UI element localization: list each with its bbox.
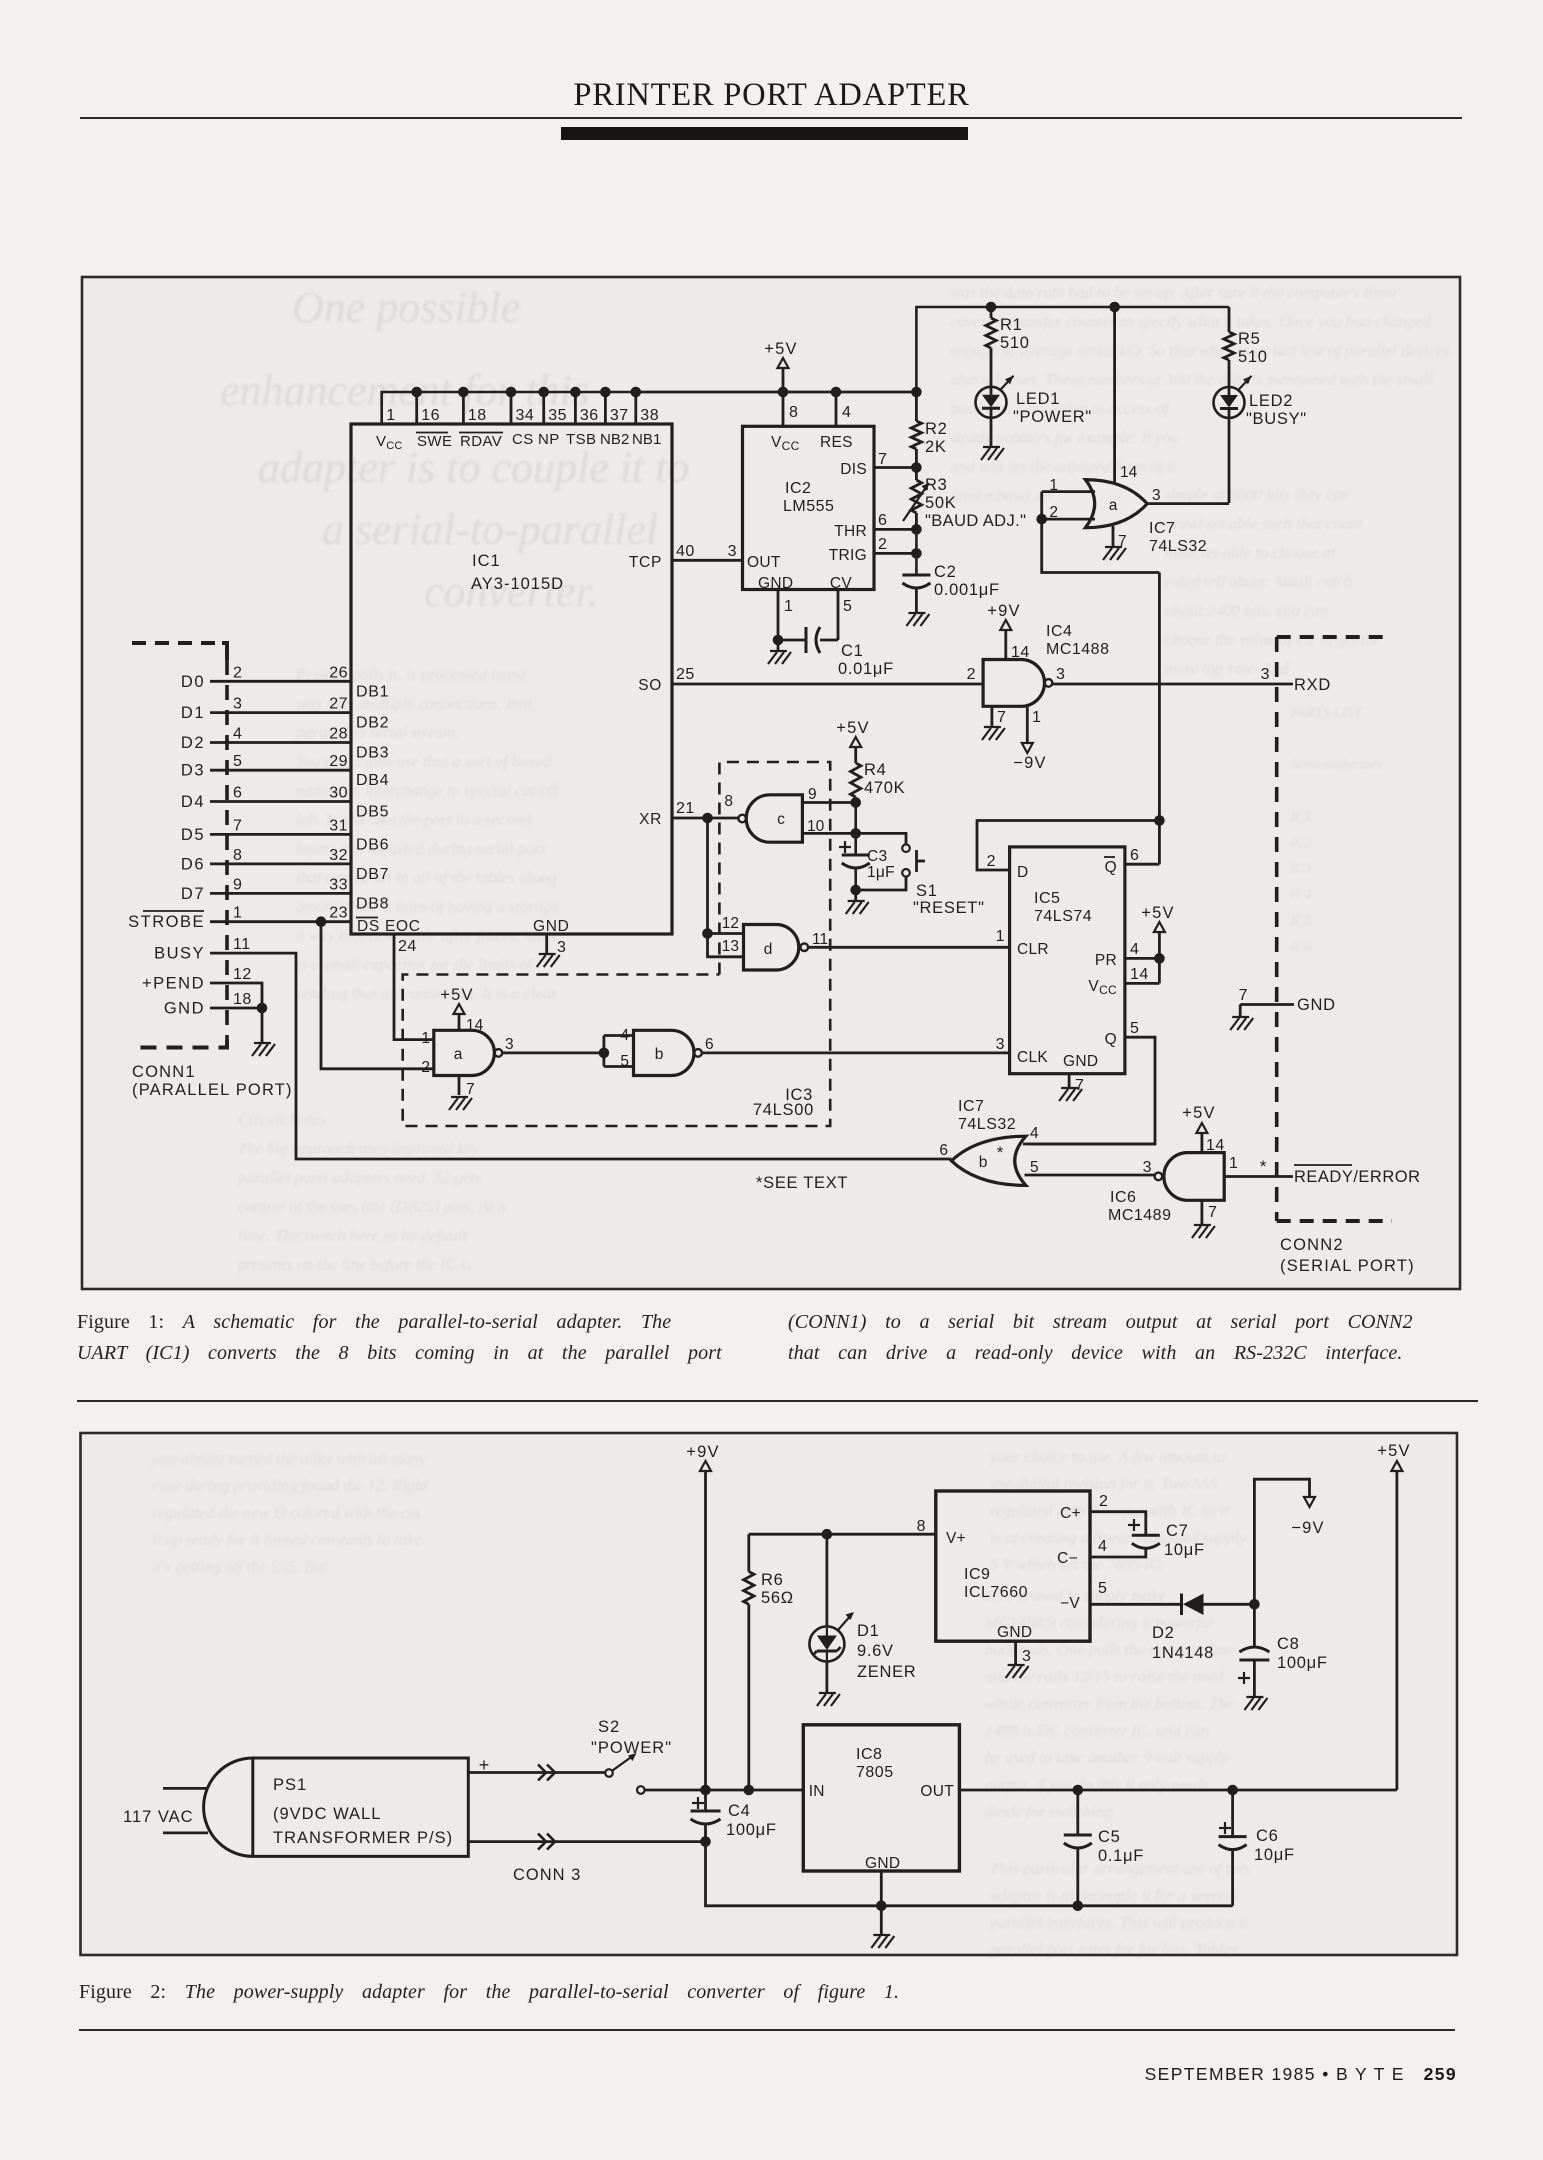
diode D2 1N4148 (1152, 1594, 1260, 1663)
svg-text:"RESET": "RESET" (913, 899, 985, 917)
svg-text:1: 1 (784, 598, 793, 615)
svg-text:"BAUD ADJ.": "BAUD ADJ." (925, 512, 1026, 530)
svg-text:24: 24 (398, 938, 417, 955)
svg-text:Q: Q (1105, 1031, 1117, 1048)
svg-text:IC2: IC2 (785, 480, 811, 497)
label GND IC1 (533, 918, 570, 935)
svg-text:OUT: OUT (747, 554, 781, 571)
svg-text:1: 1 (421, 1030, 430, 1047)
resistor R4 470K (851, 761, 906, 803)
wire D feedback loop (977, 815, 1165, 870)
wire IC2 TRIG (874, 536, 922, 559)
label XR (639, 811, 662, 828)
svg-text:READY/ERROR: READY/ERROR (1294, 1168, 1421, 1186)
svg-text:D2: D2 (1152, 1624, 1175, 1642)
svg-text:14: 14 (1206, 1137, 1225, 1154)
svg-text:−9V: −9V (1013, 754, 1046, 772)
capacitor C5 0.1uF (1064, 1790, 1144, 1906)
svg-text:27: 27 (329, 696, 348, 713)
svg-text:0.1μF: 0.1μF (1098, 1847, 1144, 1865)
svg-text:8: 8 (233, 847, 242, 864)
svg-text:35: 35 (548, 407, 567, 424)
svg-text:GND: GND (865, 1855, 900, 1872)
wire V+ line (749, 1518, 936, 1539)
svg-text:GND: GND (1063, 1053, 1098, 1070)
svg-text:2: 2 (1099, 1493, 1108, 1510)
svg-text:"POWER": "POWER" (591, 1739, 672, 1757)
svg-text:36: 36 (580, 407, 599, 424)
svg-text:TCP: TCP (629, 554, 662, 571)
ground CONN2 (1230, 1005, 1253, 1031)
svg-text:5: 5 (233, 753, 242, 770)
svg-text:IC5: IC5 (1034, 890, 1060, 907)
svg-text:37: 37 (610, 407, 629, 424)
svg-text:CONN1: CONN1 (132, 1063, 196, 1081)
ground IC4 pin7 (982, 706, 1007, 740)
svg-text:LED2: LED2 (1249, 392, 1293, 410)
svg-text:510: 510 (1238, 348, 1268, 366)
svg-text:PR: PR (1095, 952, 1117, 969)
svg-text:1N4148: 1N4148 (1152, 1644, 1214, 1662)
svg-text:10μF: 10μF (1254, 1846, 1295, 1864)
svg-text:9: 9 (808, 786, 817, 803)
svg-text:4: 4 (1030, 1125, 1039, 1142)
wire D4 to IC1 DB5 (181, 785, 389, 821)
svg-text:DB1: DB1 (356, 683, 389, 700)
ground C3 (846, 890, 869, 914)
svg-text:0.01μF: 0.01μF (838, 660, 894, 678)
IC U9 ICL7660 body (936, 1491, 1090, 1641)
svg-text:GND: GND (1297, 996, 1336, 1014)
svg-text:TSB: TSB (566, 431, 596, 448)
svg-text:D: D (1017, 864, 1029, 881)
wire 117VAC top (163, 1787, 208, 1790)
svg-text:16: 16 (421, 407, 440, 424)
svg-text:74LS74: 74LS74 (1034, 908, 1092, 925)
wire +5V riser (911, 307, 1229, 397)
svg-text:C+: C+ (1060, 1505, 1081, 1522)
pin names IC1 top (376, 431, 661, 452)
wire IC2 pin8 (783, 392, 798, 426)
svg-text:PS1: PS1 (273, 1776, 307, 1794)
svg-text:b: b (655, 1046, 664, 1063)
svg-text:100μF: 100μF (726, 1821, 777, 1839)
ground IC6 pin7 (1192, 1200, 1218, 1238)
NAND gate IC3b (620, 1027, 713, 1076)
wire IC7a output (1147, 502, 1229, 505)
capacitor C2 0.001uF (902, 563, 999, 599)
svg-text:3: 3 (1022, 1648, 1031, 1665)
svg-text:S2: S2 (598, 1718, 620, 1736)
svg-text:R3: R3 (925, 476, 948, 494)
svg-text:40: 40 (676, 543, 695, 560)
wire gate d out to IC5 CLR (808, 928, 1010, 947)
svg-text:GND: GND (164, 1000, 205, 1018)
svg-text:14: 14 (466, 1017, 484, 1034)
svg-text:C−: C− (1057, 1550, 1078, 1567)
wire D1 to IC1 DB2 (181, 696, 389, 732)
svg-text:OUT: OUT (920, 1783, 954, 1800)
svg-text:1: 1 (996, 928, 1005, 945)
svg-text:74LS00: 74LS00 (753, 1101, 814, 1119)
power +5V fig2 (1377, 1442, 1410, 1790)
capacitor C8 100uF (1238, 1604, 1328, 1684)
svg-text:8: 8 (917, 1518, 926, 1535)
svg-text:56Ω: 56Ω (761, 1589, 794, 1607)
svg-text:GND: GND (758, 575, 793, 592)
buffer IC4 MC1488 (983, 623, 1109, 706)
figure 1 caption left column (77, 1307, 777, 1369)
svg-text:+5V: +5V (1182, 1104, 1215, 1122)
svg-text:21: 21 (676, 800, 695, 817)
wire SO to IC4 (638, 666, 983, 694)
svg-text:IN: IN (809, 1783, 825, 1800)
svg-text:*: * (1260, 1157, 1267, 1176)
svg-text:10μF: 10μF (1164, 1541, 1205, 1559)
svg-text:R4: R4 (864, 761, 887, 779)
svg-text:IC1: IC1 (472, 552, 501, 570)
label CONN3 (513, 1866, 581, 1884)
svg-text:BUSY: BUSY (154, 945, 205, 963)
svg-text:14: 14 (1130, 966, 1149, 983)
svg-text:D4: D4 (181, 793, 205, 811)
svg-text:7: 7 (878, 451, 887, 468)
svg-text:−V: −V (1060, 1595, 1080, 1612)
wire LED2 to gate out (1228, 418, 1231, 503)
wire CONN2 GND pin7 (1239, 987, 1336, 1014)
svg-text:8: 8 (724, 793, 733, 810)
svg-text:DB6: DB6 (356, 836, 389, 853)
figure 1 caption right column (788, 1307, 1488, 1369)
svg-text:IC6: IC6 (1110, 1189, 1136, 1206)
svg-text:IC7: IC7 (1149, 520, 1175, 537)
svg-text:14: 14 (1011, 644, 1030, 661)
capacitor C7 10uF (1090, 1493, 1205, 1559)
svg-text:MC1488: MC1488 (1046, 641, 1109, 658)
wire D5 to IC1 DB6 (181, 817, 389, 853)
wire STROBE to IC1 DS pin23 (128, 905, 351, 931)
thick header bar (561, 127, 968, 140)
svg-text:CLK: CLK (1017, 1049, 1048, 1066)
svg-text:7805: 7805 (856, 1764, 894, 1781)
svg-text:EOC: EOC (385, 918, 421, 935)
wire R4 to C3 (854, 803, 857, 856)
svg-text:11: 11 (812, 931, 828, 948)
wire IC2 GND pin1 (773, 590, 794, 646)
svg-text:18: 18 (233, 991, 252, 1008)
svg-text:DB8: DB8 (356, 895, 389, 912)
svg-text:100μF: 100μF (1277, 1654, 1328, 1672)
svg-text:3: 3 (233, 696, 242, 713)
svg-text:C5: C5 (1098, 1828, 1121, 1846)
svg-text:2: 2 (233, 664, 242, 681)
svg-text:IC7: IC7 (958, 1098, 984, 1115)
svg-text:+9V: +9V (987, 602, 1020, 620)
svg-text:RES: RES (820, 434, 853, 451)
power +5V arrow (764, 340, 797, 397)
ground CONN1 (252, 1008, 275, 1056)
svg-text:MC1489: MC1489 (1108, 1207, 1171, 1224)
switch S2 POWER (591, 1718, 672, 1794)
svg-text:NP: NP (538, 431, 560, 448)
svg-text:STROBE: STROBE (128, 913, 205, 931)
wire gate d tied inputs (702, 818, 743, 957)
svg-text:9: 9 (233, 876, 242, 893)
node pin37 bus (600, 387, 611, 424)
svg-text:DS: DS (357, 918, 380, 935)
svg-text:GND: GND (533, 918, 570, 935)
power +9V IC4 pin14 (987, 602, 1030, 661)
pin numbers IC1 top (386, 407, 659, 424)
svg-text:C3: C3 (867, 848, 887, 865)
svg-text:3: 3 (557, 939, 566, 956)
wire +PEND (142, 966, 262, 1008)
svg-text:7: 7 (1239, 987, 1248, 1004)
svg-text:7: 7 (997, 709, 1006, 726)
wire gate c in10 (802, 828, 861, 839)
svg-text:GND: GND (997, 1624, 1032, 1641)
svg-text:32: 32 (329, 847, 348, 864)
capacitor C1 0.01uF (778, 590, 894, 679)
wire IC2 THR (874, 512, 922, 535)
OR gate IC7b (939, 1098, 1039, 1185)
capacitor C3 1uF (839, 841, 895, 881)
svg-text:1: 1 (1032, 709, 1041, 726)
svg-text:D1: D1 (181, 704, 205, 722)
svg-text:2: 2 (987, 853, 996, 870)
svg-text:"POWER": "POWER" (1013, 408, 1092, 426)
IC3 74LS00 dashed outline (403, 762, 831, 1126)
wire VCC pin14 (1125, 958, 1160, 983)
wire Qbar pin6 (1125, 573, 1160, 865)
node pin35 bus (538, 387, 549, 424)
svg-text:33: 33 (329, 876, 348, 893)
svg-text:30: 30 (329, 785, 348, 802)
svg-text:D2: D2 (181, 734, 205, 752)
wire PS1 bottom output (468, 1834, 705, 1850)
node pin34 bus (506, 387, 517, 424)
svg-text:IC4: IC4 (1046, 623, 1072, 640)
svg-text:6: 6 (233, 785, 242, 802)
svg-text:470K: 470K (864, 779, 905, 797)
ground IC9 pin3 (1006, 1641, 1032, 1678)
svg-text:+5V: +5V (1141, 904, 1174, 922)
svg-text:3: 3 (505, 1036, 514, 1053)
power +9V fig2 (686, 1443, 719, 1790)
svg-text:−9V: −9V (1291, 1519, 1324, 1537)
svg-text:C7: C7 (1166, 1522, 1189, 1540)
svg-text:D6: D6 (181, 855, 205, 873)
svg-text:7: 7 (233, 817, 242, 834)
svg-text:2: 2 (967, 666, 976, 683)
IC U8 7805 body (803, 1725, 959, 1872)
svg-text:C4: C4 (728, 1802, 751, 1820)
power +5V R4 (836, 719, 869, 763)
footer rule (79, 2029, 1455, 2031)
svg-text:CV: CV (830, 575, 852, 592)
svg-text:23: 23 (329, 905, 348, 922)
ground IC2 pin1 (768, 640, 791, 664)
svg-text:DB7: DB7 (356, 866, 389, 883)
capacitor C6 10uF (1219, 1790, 1295, 1906)
figure 2 border frame (81, 1433, 1458, 1955)
wire IC4 out RXD (1052, 666, 1331, 694)
figure 2 caption (79, 1977, 1279, 2008)
wire STROBE to gate a (321, 922, 434, 1069)
wire IC2 pin4 (831, 387, 852, 427)
svg-text:d: d (764, 941, 773, 958)
wire +5V bus over IC1 (382, 392, 917, 424)
svg-text:+5V: +5V (440, 986, 473, 1004)
figure 1 border frame (82, 277, 1460, 1289)
ground IC8 GND (871, 1871, 894, 1948)
svg-text:8: 8 (789, 404, 798, 421)
IC U5 74LS74 body (1010, 847, 1125, 1074)
mid page rule (77, 1400, 1478, 1402)
svg-text:AY3-1015D: AY3-1015D (471, 575, 564, 593)
svg-text:LED1: LED1 (1016, 390, 1060, 408)
wire gate c in9 (802, 797, 861, 808)
wire IC2 DIS (874, 451, 922, 473)
IC U2 LM555 body (743, 426, 875, 592)
svg-text:RDAV: RDAV (460, 433, 502, 450)
node pin38 bus (631, 387, 642, 424)
svg-text:R2: R2 (925, 420, 948, 438)
svg-text:5: 5 (1098, 1580, 1107, 1597)
svg-text:7: 7 (466, 1081, 475, 1098)
svg-text:2K: 2K (925, 438, 947, 456)
svg-text:510: 510 (1000, 334, 1030, 352)
power +5V gate a (440, 986, 473, 1030)
resistor R3 50K BAUD ADJ (903, 468, 1026, 531)
wire gate b out to IC5 CLK (702, 1036, 1010, 1053)
svg-text:3: 3 (1261, 666, 1270, 683)
svg-text:0.001μF: 0.001μF (934, 581, 1000, 599)
svg-text:D7: D7 (181, 885, 205, 903)
NAND gate IC3a (421, 1017, 513, 1098)
svg-text:6: 6 (878, 512, 887, 529)
wire Q pin5 to gate b* (1029, 1020, 1155, 1144)
svg-text:12: 12 (233, 966, 252, 983)
wire PS1 top output (468, 1765, 605, 1781)
svg-text:+5V: +5V (1377, 1442, 1410, 1460)
svg-text:D0: D0 (181, 673, 205, 691)
svg-text:"BUSY": "BUSY" (1246, 410, 1307, 428)
IC U1 AY3-1015D body (351, 424, 672, 934)
wire D3 to IC1 DB4 (181, 753, 389, 789)
svg-text:R1: R1 (1000, 316, 1023, 334)
svg-text:VCC: VCC (1088, 978, 1117, 997)
wire READY/ERROR (1224, 1157, 1420, 1186)
svg-text:4: 4 (1098, 1538, 1107, 1555)
svg-text:(PARALLEL PORT): (PARALLEL PORT) (132, 1081, 293, 1099)
ground IC7a pin7 (1103, 526, 1126, 560)
svg-text:CONN2: CONN2 (1280, 1236, 1344, 1254)
label SEE TEXT (756, 1174, 848, 1192)
svg-text:LM555: LM555 (783, 498, 834, 515)
svg-text:C6: C6 (1256, 1827, 1279, 1845)
svg-text:+5V: +5V (836, 719, 869, 737)
footer page info (0, 2064, 1457, 2085)
svg-text:5: 5 (1130, 1020, 1139, 1037)
svg-text:2: 2 (421, 1059, 430, 1076)
svg-text:1μF: 1μF (867, 864, 895, 881)
wire +5V bus to IC2 (636, 391, 917, 394)
wire C3 to ground node (850, 869, 861, 895)
svg-text:50K: 50K (925, 494, 956, 512)
wire IC7b in5 from IC6 (1025, 1174, 1155, 1177)
resistor R1 510 (986, 302, 1030, 352)
wire S2 to IC8 IN (645, 1785, 804, 1796)
zener D1 9.6V (809, 1534, 916, 1681)
svg-text:IC8: IC8 (856, 1746, 882, 1763)
svg-text:R6: R6 (761, 1571, 784, 1589)
wire XR pin21 (672, 800, 739, 823)
svg-text:+9V: +9V (686, 1443, 719, 1461)
svg-text:3: 3 (996, 1036, 1005, 1053)
svg-text:DB2: DB2 (356, 715, 389, 732)
wire D2 to IC1 DB3 (181, 726, 389, 762)
svg-text:a: a (1109, 497, 1118, 514)
svg-text:5: 5 (843, 598, 852, 615)
svg-text:D1: D1 (857, 1622, 880, 1640)
wire GND CONN1 (164, 991, 267, 1018)
svg-text:ICL7660: ICL7660 (964, 1584, 1028, 1601)
wire C4 to ground bus (706, 1842, 882, 1906)
svg-text:D3: D3 (181, 762, 205, 780)
svg-text:(SERIAL PORT): (SERIAL PORT) (1280, 1257, 1415, 1275)
svg-text:1: 1 (386, 407, 395, 424)
svg-text:9.6V: 9.6V (857, 1642, 894, 1660)
svg-text:a: a (454, 1046, 463, 1063)
thin header rule (80, 117, 1462, 119)
svg-text:3: 3 (1143, 1159, 1152, 1176)
wire 117VAC bottom (163, 1832, 208, 1835)
wire D6 to IC1 DB7 (181, 847, 389, 883)
wire gate a out (502, 1048, 609, 1059)
svg-text:1: 1 (233, 905, 242, 922)
wire -V pin5 (1090, 1580, 1182, 1604)
svg-text:3: 3 (1152, 487, 1161, 504)
svg-text:DB5: DB5 (356, 804, 389, 821)
svg-text:R5: R5 (1238, 330, 1261, 348)
svg-text:TRANSFORMER P/S): TRANSFORMER P/S) (273, 1829, 453, 1847)
LED1 POWER (976, 348, 1092, 426)
node pin36 bus (570, 387, 581, 424)
svg-text:5: 5 (1030, 1159, 1039, 1176)
svg-text:IC9: IC9 (964, 1566, 990, 1583)
LED2 BUSY (1214, 360, 1307, 428)
ground gate a (449, 1076, 472, 1111)
svg-text:CONN 3: CONN 3 (513, 1866, 581, 1884)
wire gate b tied inputs (604, 1036, 634, 1067)
wire D7 to IC1 DB8 (181, 876, 389, 912)
svg-text:74LS32: 74LS32 (1149, 538, 1207, 555)
svg-text:26: 26 (329, 664, 348, 681)
transformer PS1 (204, 1755, 490, 1856)
wire IC8 OUT to +5V (959, 1785, 1397, 1796)
capacitor C4 100uF (691, 1790, 777, 1847)
svg-text:6: 6 (939, 1142, 948, 1159)
node pin16 bus (411, 387, 422, 424)
switch S1 RESET (856, 833, 985, 917)
svg-text:31: 31 (329, 817, 348, 834)
svg-text:b: b (979, 1154, 988, 1171)
svg-text:Q: Q (1105, 859, 1117, 876)
svg-text:DIS: DIS (840, 461, 867, 478)
ground C2 (906, 589, 929, 626)
connector CONN1 dashed outline (132, 643, 293, 1099)
